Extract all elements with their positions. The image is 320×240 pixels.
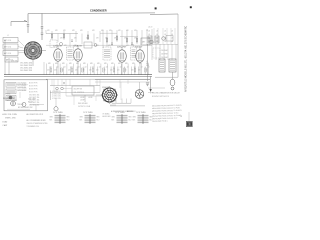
svg-text:BLU: BLU <box>67 119 70 121</box>
svg-text:1ST IF 456KC: 1ST IF 456KC <box>18 83 27 85</box>
svg-text:220: 220 <box>117 70 120 72</box>
svg-text:47K: 47K <box>124 38 127 40</box>
svg-text:GRN: GRN <box>133 116 136 118</box>
svg-text:I.F. 455KC: I.F. 455KC <box>103 114 111 116</box>
svg-text:.01: .01 <box>146 30 148 32</box>
svg-text:OSC 456KC 2ND: OSC 456KC 2ND <box>20 63 33 65</box>
svg-text:47K: 47K <box>126 30 129 32</box>
svg-text:B PHONO SWITCH POS: B PHONO SWITCH POS <box>152 96 169 98</box>
svg-text:OSC SECT 456: OSC SECT 456 <box>29 95 39 97</box>
svg-text:.02: .02 <box>141 66 143 68</box>
svg-text:47K: 47K <box>146 63 149 65</box>
svg-text:47K: 47K <box>125 63 128 65</box>
svg-text:DET: DET <box>142 42 145 44</box>
svg-text:.02: .02 <box>148 66 150 68</box>
svg-text:220: 220 <box>89 70 92 72</box>
svg-text:220: 220 <box>131 70 134 72</box>
svg-text:RED: RED <box>97 116 100 118</box>
svg-text:L2 OSC COIL: L2 OSC COIL <box>52 91 61 93</box>
svg-text:.02: .02 <box>127 66 129 68</box>
svg-text:OUTPUT 3.2 OHM: OUTPUT 3.2 OHM <box>78 106 91 108</box>
svg-text:47K: 47K <box>86 38 89 40</box>
svg-text:OSC SECT 456: OSC SECT 456 <box>29 102 39 104</box>
svg-text:AIRCASTLE MODELS 651.271, 65: AIRCASTLE MODELS 651.271, 651.274, 651.2… <box>185 26 188 92</box>
svg-text:.05 MF: .05 MF <box>80 97 85 99</box>
svg-text:.02: .02 <box>120 66 122 68</box>
svg-text:220: 220 <box>96 70 99 72</box>
svg-text:47K: 47K <box>62 63 65 65</box>
svg-text:47K: 47K <box>72 30 75 32</box>
svg-text:47K: 47K <box>48 63 51 65</box>
svg-text:.05: .05 <box>148 31 150 33</box>
svg-text:GRN: GRN <box>50 116 53 118</box>
svg-text:47K: 47K <box>105 38 108 40</box>
svg-text:250 OHM: 250 OHM <box>161 50 168 52</box>
svg-text:47K: 47K <box>96 38 99 40</box>
svg-text:OSC 456KC 2ND: OSC 456KC 2ND <box>20 65 33 67</box>
svg-text:BLK: BLK <box>80 119 83 121</box>
svg-text:47K: 47K <box>97 63 100 65</box>
svg-text:47K: 47K <box>60 38 63 40</box>
svg-text:.05: .05 <box>171 41 173 43</box>
svg-text:BLK: BLK <box>50 119 53 121</box>
svg-text:L2 OSC COIL: L2 OSC COIL <box>52 93 61 95</box>
svg-text:47K: 47K <box>90 63 93 65</box>
svg-text:B 1ST IF TR: B 1ST IF TR <box>29 89 38 91</box>
svg-text:47K: 47K <box>114 38 117 40</box>
svg-text:.05 MF: .05 MF <box>80 100 85 102</box>
svg-text:1ST IF 456KC: 1ST IF 456KC <box>18 85 27 87</box>
svg-text:250 OHM: 250 OHM <box>161 57 168 59</box>
svg-text:250 OHM: 250 OHM <box>161 54 168 56</box>
svg-text:220: 220 <box>54 70 57 72</box>
svg-text:47K: 47K <box>55 63 58 65</box>
svg-text:47K: 47K <box>47 30 50 32</box>
svg-text:1ST IF 456KC: 1ST IF 456KC <box>18 90 27 92</box>
svg-text:47K: 47K <box>92 30 95 32</box>
svg-text:BLK: BLK <box>133 119 136 121</box>
svg-text:GRN: GRN <box>80 116 83 118</box>
svg-text:L1: L1 <box>7 35 9 37</box>
svg-text:47K: 47K <box>74 38 77 40</box>
svg-text:.05: .05 <box>148 34 150 36</box>
svg-text:OSC 456KC 2ND: OSC 456KC 2ND <box>20 70 33 72</box>
svg-text:ON-OFF SW: ON-OFF SW <box>74 88 83 90</box>
svg-text:47K: 47K <box>63 30 66 32</box>
svg-text:UNLESS OTHERWISE NOTED: UNLESS OTHERWISE NOTED <box>27 123 49 125</box>
svg-text:RED: RED <box>67 116 70 118</box>
svg-text:.02: .02 <box>85 66 87 68</box>
svg-text:.05: .05 <box>164 41 166 43</box>
svg-text:GRN: GRN <box>112 116 115 118</box>
svg-text:47K: 47K <box>109 30 112 32</box>
svg-text:47K: 47K <box>101 30 104 32</box>
svg-text:.05: .05 <box>164 31 166 33</box>
svg-text:.05: .05 <box>171 31 173 33</box>
svg-text:RED: RED <box>129 116 132 118</box>
svg-text:12SK7GT: 12SK7GT <box>53 45 63 47</box>
svg-text:47K: 47K <box>134 38 137 40</box>
svg-text:BLK: BLK <box>112 119 115 121</box>
svg-text:OSC 456KC 2ND: OSC 456KC 2ND <box>20 68 33 70</box>
svg-text:47K: 47K <box>83 63 86 65</box>
svg-text:47K: 47K <box>118 63 121 65</box>
svg-text:220: 220 <box>68 70 71 72</box>
svg-text:220: 220 <box>138 70 141 72</box>
svg-text:47K: 47K <box>118 30 121 32</box>
svg-text:.02: .02 <box>99 66 101 68</box>
svg-text:BLU: BLU <box>97 119 100 121</box>
svg-text:PUSH-PULL OUT: PUSH-PULL OUT <box>3 98 15 100</box>
svg-text:OSC SECT 456: OSC SECT 456 <box>29 100 39 102</box>
svg-text:GREEN - GRID: GREEN - GRID <box>5 117 17 119</box>
svg-text:RED GRN BLK: RED GRN BLK <box>78 103 88 105</box>
svg-text:47K: 47K <box>76 63 79 65</box>
svg-text:47K: 47K <box>69 63 72 65</box>
svg-text:.02: .02 <box>78 66 80 68</box>
svg-text:W TRIM: W TRIM <box>5 94 11 96</box>
svg-text:L2 OSC COIL: L2 OSC COIL <box>52 98 61 100</box>
svg-text:50L6GT: 50L6GT <box>135 46 143 48</box>
svg-text:220: 220 <box>75 70 78 72</box>
svg-text:.02: .02 <box>106 66 108 68</box>
svg-text:.02: .02 <box>57 66 59 68</box>
svg-text:.05 20: .05 20 <box>148 27 152 29</box>
svg-text:47K: 47K <box>139 63 142 65</box>
svg-text:4.7K OSC: 4.7K OSC <box>11 61 19 63</box>
svg-text:OSC SECT 456: OSC SECT 456 <box>29 97 39 99</box>
svg-text:220: 220 <box>110 70 113 72</box>
svg-text:BLU: BLU <box>129 119 132 121</box>
svg-text:47K: 47K <box>55 30 58 32</box>
svg-text:B 1ST IF TR: B 1ST IF TR <box>29 92 38 94</box>
svg-text:B 1ST IF TR: B 1ST IF TR <box>29 83 38 85</box>
svg-text:OSC SECT 456: OSC SECT 456 <box>29 105 39 107</box>
svg-text:47K: 47K <box>80 30 83 32</box>
svg-text:47K: 47K <box>134 30 137 32</box>
svg-text:B 1ST IF TR: B 1ST IF TR <box>29 86 38 88</box>
svg-text:1ST IF 456KC: 1ST IF 456KC <box>18 88 27 90</box>
svg-text:L2 OSC COIL: L2 OSC COIL <box>52 96 61 98</box>
svg-text:.02: .02 <box>64 66 66 68</box>
svg-text:47K: 47K <box>104 63 107 65</box>
svg-text:47K: 47K <box>132 63 135 65</box>
svg-text:220: 220 <box>47 70 50 72</box>
svg-text:.05 MF: .05 MF <box>88 97 93 99</box>
svg-text:47K: 47K <box>111 63 114 65</box>
svg-text:CONDENSER: CONDENSER <box>90 8 107 12</box>
svg-text:BC 540-1600KC OSC: BC 540-1600KC OSC <box>18 107 34 109</box>
